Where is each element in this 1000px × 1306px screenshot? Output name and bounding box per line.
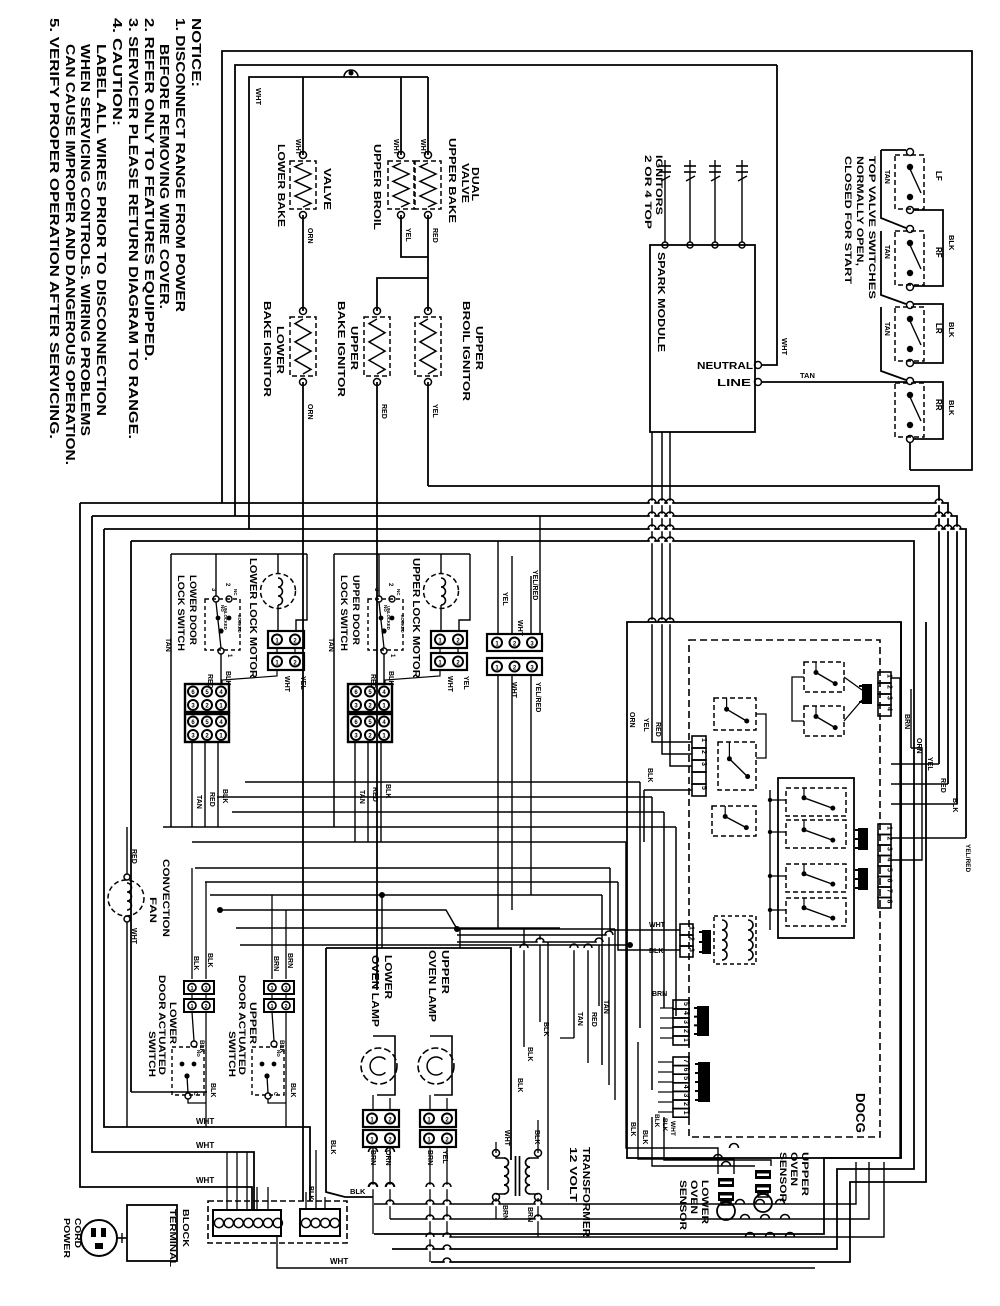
svg-text:DOOR ACTUATED: DOOR ACTUATED (237, 975, 247, 1076)
svg-text:UPPER: UPPER (799, 1152, 810, 1196)
svg-text:WHT: WHT (196, 1141, 214, 1150)
svg-text:BLK: BLK (516, 1078, 523, 1092)
svg-text:UPPER: UPPER (473, 326, 484, 371)
svg-text:BLK: BLK (384, 784, 391, 798)
svg-text:WHT: WHT (649, 922, 666, 929)
svg-text:UPPER LOCK MOTOR: UPPER LOCK MOTOR (410, 558, 421, 679)
svg-text:1: 1 (886, 826, 893, 830)
svg-text:UPPER: UPPER (348, 326, 359, 371)
svg-text:6: 6 (886, 879, 893, 883)
svg-text:LOWER BAKE: LOWER BAKE (275, 144, 286, 227)
svg-text:BAKE IGNITOR: BAKE IGNITOR (335, 301, 346, 398)
svg-text:8: 8 (886, 900, 893, 904)
svg-text:LOWER: LOWER (699, 1180, 710, 1224)
svg-text:OVEN LAMP: OVEN LAMP (426, 950, 437, 1022)
svg-text:RED: RED (130, 849, 137, 864)
svg-text:BLK: BLK (947, 322, 956, 338)
svg-text:DUAL: DUAL (469, 167, 480, 201)
svg-text:WHT: WHT (294, 139, 301, 156)
svg-text:7: 7 (886, 889, 893, 893)
svg-text:TAN: TAN (195, 795, 202, 809)
svg-text:TAN: TAN (800, 371, 815, 380)
svg-text:BLK: BLK (329, 1140, 336, 1154)
svg-text:RF: RF (934, 247, 943, 258)
svg-text:YEL: YEL (926, 757, 933, 771)
svg-text:YEL/RED: YEL/RED (534, 682, 541, 712)
svg-text:TOP VALVE SWITCHES: TOP VALVE SWITCHES (866, 156, 877, 299)
svg-text:CORD: CORD (73, 1218, 83, 1248)
svg-text:BRN: BRN (526, 1207, 533, 1222)
svg-text:2: 2 (886, 685, 893, 689)
svg-text:3: 3 (682, 1020, 689, 1024)
svg-text:WHT: WHT (196, 1117, 214, 1126)
svg-text:BRN: BRN (903, 714, 910, 729)
svg-text:2. REFER ONLY TO FEATURES EQUI: 2. REFER ONLY TO FEATURES EQUIPPED. (142, 18, 156, 361)
svg-text:3: 3 (886, 696, 893, 700)
svg-text:RED: RED (590, 1012, 597, 1027)
svg-text:LOCK SWITCH: LOCK SWITCH (175, 575, 186, 651)
svg-text:1: 1 (270, 986, 273, 992)
svg-text:TAN: TAN (327, 638, 334, 652)
svg-text:2: 2 (700, 750, 707, 754)
svg-text:OVEN LAMP: OVEN LAMP (369, 955, 380, 1027)
svg-text:FAN: FAN (147, 897, 158, 923)
svg-text:WHT: WHT (503, 1130, 510, 1147)
svg-text:WHT: WHT (283, 676, 290, 693)
svg-text:YEL: YEL (431, 404, 438, 418)
svg-text:NEUTRAL: NEUTRAL (697, 360, 754, 372)
svg-text:NOTICE:: NOTICE: (189, 18, 203, 87)
svg-text:NC: NC (396, 589, 401, 596)
svg-text:SPARK MODULE: SPARK MODULE (655, 252, 666, 352)
svg-text:SWITCH: SWITCH (227, 1031, 237, 1077)
svg-text:BLK: BLK (307, 1186, 314, 1200)
svg-text:2: 2 (688, 937, 695, 941)
svg-text:2: 2 (284, 1004, 287, 1010)
svg-text:DOCG: DOCG (853, 1093, 868, 1133)
svg-text:4: 4 (682, 1011, 689, 1015)
svg-text:3: 3 (700, 762, 707, 766)
svg-text:LOCK SWITCH: LOCK SWITCH (338, 575, 349, 651)
svg-text:LOWER: LOWER (168, 1002, 178, 1045)
svg-text:BLK: BLK (629, 1122, 636, 1136)
svg-text:2: 2 (204, 1004, 207, 1010)
svg-text:TAN: TAN (602, 1000, 609, 1014)
svg-text:BLOCK: BLOCK (181, 1209, 191, 1248)
svg-text:1: 1 (190, 1004, 193, 1010)
svg-text:12 VOLT: 12 VOLT (567, 1147, 578, 1202)
svg-text:BRN: BRN (501, 1205, 508, 1220)
svg-text:4: 4 (886, 707, 893, 711)
svg-text:BLK: BLK (947, 235, 956, 251)
svg-text:YEL/RED: YEL/RED (531, 570, 538, 600)
svg-text:RR: RR (934, 399, 943, 411)
svg-text:2 OR 4 TOP: 2 OR 4 TOP (643, 155, 653, 229)
svg-text:LOCKED: LOCKED (400, 615, 405, 633)
svg-text:C: C (272, 1092, 278, 1096)
svg-text:WHT: WHT (780, 338, 789, 355)
svg-text:BROIL IGNITOR: BROIL IGNITOR (460, 301, 471, 402)
svg-text:LOWER LOCK MOTOR: LOWER LOCK MOTOR (247, 558, 258, 679)
svg-text:TAN: TAN (883, 322, 890, 336)
svg-text:IGNITORS: IGNITORS (654, 155, 664, 215)
svg-text:WHT: WHT (419, 139, 426, 156)
svg-text:BLK: BLK (542, 1022, 549, 1036)
svg-text:WHT: WHT (510, 682, 517, 699)
svg-text:TAN: TAN (883, 170, 890, 184)
svg-text:4. CAUTION:: 4. CAUTION: (110, 18, 124, 126)
svg-text:BLK: BLK (209, 1083, 216, 1097)
svg-text:OVEN: OVEN (788, 1152, 799, 1186)
svg-text:ORN: ORN (915, 738, 922, 754)
svg-text:WHT: WHT (196, 1176, 214, 1185)
svg-text:SENSOR: SENSOR (777, 1152, 788, 1202)
svg-text:BLK: BLK (653, 1114, 660, 1128)
svg-text:RED: RED (654, 722, 661, 737)
svg-text:CAN CAUSE IMPROPER AND DANGERO: CAN CAUSE IMPROPER AND DANGEROUS OPERATI… (63, 44, 77, 465)
svg-text:YEL/RED: YEL/RED (964, 844, 971, 872)
svg-text:BLK: BLK (649, 948, 663, 955)
svg-text:LINE: LINE (717, 377, 751, 389)
svg-text:3: 3 (284, 986, 287, 992)
svg-text:LOWER DOOR: LOWER DOOR (187, 575, 198, 645)
svg-text:3: 3 (688, 948, 695, 952)
svg-text:BLK: BLK (206, 953, 213, 967)
svg-text:1: 1 (688, 926, 695, 930)
svg-text:UPPER DOOR: UPPER DOOR (350, 575, 361, 645)
svg-text:ORN: ORN (628, 712, 635, 728)
svg-text:UPPER: UPPER (439, 950, 450, 995)
svg-text:WHT: WHT (392, 139, 399, 156)
svg-text:YEL: YEL (462, 676, 469, 690)
svg-text:LOWER: LOWER (274, 326, 285, 375)
svg-text:UPPER BROIL: UPPER BROIL (371, 144, 382, 230)
svg-text:CONVECTION: CONVECTION (160, 859, 171, 937)
svg-text:OVEN: OVEN (688, 1180, 699, 1214)
svg-text:3. SERVICER PLEASE RETURN DIAG: 3. SERVICER PLEASE RETURN DIAGRAM TO RAN… (126, 18, 140, 439)
svg-text:BRN: BRN (272, 956, 279, 971)
svg-text:UPPER BAKE: UPPER BAKE (446, 138, 457, 223)
svg-text:LR: LR (934, 323, 943, 334)
svg-text:C: C (192, 1092, 198, 1096)
svg-text:YEL: YEL (501, 592, 508, 606)
svg-text:1: 1 (682, 1111, 689, 1115)
svg-text:2: 2 (682, 1102, 689, 1106)
svg-text:LABEL ALL WIRES PRIOR TO DISCO: LABEL ALL WIRES PRIOR TO DISCONNECTION (94, 44, 108, 416)
svg-text:5: 5 (700, 786, 707, 790)
svg-text:TAN: TAN (576, 1012, 583, 1026)
svg-text:BLK: BLK (350, 1187, 366, 1196)
svg-text:3: 3 (886, 847, 893, 851)
svg-text:LOWER: LOWER (382, 955, 393, 1000)
svg-text:NO: NO (196, 1050, 201, 1057)
svg-text:2: 2 (682, 1029, 689, 1033)
svg-text:TAN: TAN (883, 245, 890, 259)
svg-text:RED: RED (371, 787, 378, 802)
svg-text:ORN: ORN (306, 404, 313, 420)
svg-text:RED: RED (939, 778, 946, 793)
svg-text:BLK: BLK (947, 400, 956, 416)
svg-text:3: 3 (204, 986, 207, 992)
svg-text:WHT: WHT (130, 928, 137, 945)
svg-text:5: 5 (886, 868, 893, 872)
svg-text:TRANSFORMER: TRANSFORMER (580, 1147, 591, 1238)
svg-text:1: 1 (190, 986, 193, 992)
svg-text:1: 1 (270, 1004, 273, 1010)
svg-text:RED: RED (431, 228, 438, 243)
svg-text:1: 1 (700, 738, 707, 742)
svg-text:WHT: WHT (446, 676, 453, 693)
svg-text:WHT: WHT (516, 620, 523, 637)
svg-text:1. DISCONNECT RANGE FROM POWER: 1. DISCONNECT RANGE FROM POWER (173, 18, 187, 312)
svg-text:BAKE IGNITOR: BAKE IGNITOR (261, 301, 272, 398)
svg-text:YEL: YEL (404, 228, 411, 242)
svg-text:NO: NO (276, 1050, 281, 1057)
svg-text:WHEN SERVICING CONTROLS. WIRIN: WHEN SERVICING CONTROLS. WIRING PROBLEMS (78, 44, 92, 436)
svg-text:5. VERIFY PROPER OPERATION AFT: 5. VERIFY PROPER OPERATION AFTER SERVICI… (47, 18, 61, 439)
svg-text:UPPER: UPPER (248, 1002, 258, 1045)
svg-text:1: 1 (682, 1038, 689, 1042)
svg-text:YEL: YEL (642, 718, 649, 732)
svg-text:VALVE: VALVE (321, 168, 332, 210)
svg-text:BLK: BLK (641, 1130, 648, 1144)
svg-text:SENSOR: SENSOR (677, 1180, 688, 1230)
svg-text:4: 4 (682, 1085, 689, 1089)
svg-text:BRN: BRN (652, 991, 667, 998)
svg-text:LF: LF (934, 171, 943, 181)
svg-text:BLK: BLK (192, 956, 199, 970)
svg-text:WHT: WHT (254, 88, 263, 105)
svg-text:BLK: BLK (646, 768, 653, 782)
svg-text:POWER: POWER (62, 1218, 72, 1258)
svg-text:UNLOCKED: UNLOCKED (223, 606, 228, 630)
svg-text:LOCKED: LOCKED (237, 615, 242, 633)
svg-text:ORN: ORN (306, 228, 313, 244)
svg-text:BLK: BLK (526, 1047, 533, 1061)
svg-text:SWITCH: SWITCH (147, 1031, 157, 1077)
svg-text:TAN: TAN (164, 638, 171, 652)
svg-text:BLK: BLK (221, 789, 228, 803)
svg-text:RED: RED (208, 792, 215, 807)
svg-text:TERMINAL: TERMINAL (168, 1209, 178, 1267)
svg-text:WHT: WHT (669, 1121, 676, 1136)
svg-text:VALVE: VALVE (459, 163, 470, 203)
svg-text:NORMALLY OPEN,: NORMALLY OPEN, (854, 156, 865, 266)
svg-text:BLK: BLK (289, 1083, 296, 1097)
svg-text:CLOSED FOR START: CLOSED FOR START (842, 156, 853, 284)
svg-text:6: 6 (682, 1068, 689, 1072)
svg-text:YEL: YEL (299, 676, 306, 690)
svg-text:5: 5 (682, 1002, 689, 1006)
svg-text:DOOR ACTUATED: DOOR ACTUATED (157, 975, 167, 1076)
svg-text:5: 5 (682, 1076, 689, 1080)
svg-text:WHT: WHT (330, 1257, 348, 1266)
svg-text:BRN: BRN (286, 953, 293, 968)
svg-text:NC: NC (233, 589, 238, 596)
svg-text:BLK: BLK (533, 1130, 540, 1144)
svg-text:7: 7 (682, 1059, 689, 1063)
svg-text:RED: RED (380, 404, 387, 419)
svg-text:BLK: BLK (951, 798, 958, 812)
svg-text:UNLOCKED: UNLOCKED (386, 606, 391, 630)
svg-text:3: 3 (682, 1093, 689, 1097)
svg-text:BEFORE REMOVING WIRE COVER.: BEFORE REMOVING WIRE COVER. (157, 44, 171, 309)
